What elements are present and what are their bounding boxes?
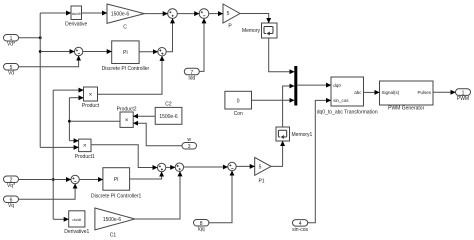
svg-text:Idd: Idd (188, 75, 195, 81)
wire PI1 to B1 bottom (130, 172, 162, 179)
wire Iqq to S4 bottom (209, 171, 232, 223)
gain C 1500e-6 (107, 4, 144, 30)
svg-text:du/dt: du/dt (72, 11, 82, 16)
wire wC to Product1 top (69, 140, 78, 142)
wire Idd up to T2 bottom (199, 18, 204, 71)
node trunk A branch (39, 50, 42, 53)
inport Vq (4, 196, 19, 209)
svg-text:Signal(s): Signal(s) (382, 90, 400, 95)
wire S3 to PI1 (79, 179, 103, 181)
derivative1 block du/dt (64, 211, 89, 235)
svg-text:abc: abc (354, 90, 362, 95)
inport Vd* (4, 35, 19, 48)
wire trunk A to Product1 bottom (40, 146, 78, 148)
svg-text:sin_cos: sin_cos (333, 98, 349, 103)
wire C1 to B2 bottom (135, 171, 180, 219)
Memory1 (276, 127, 313, 141)
svg-text:w: w (187, 137, 191, 143)
inport w (182, 137, 197, 150)
wire Vq to S3 bottom (19, 184, 76, 200)
svg-text:sin-cos: sin-cos (292, 227, 308, 233)
sum B2 (175, 163, 183, 171)
derivative block du/dt (65, 6, 87, 28)
svg-text:Iqq: Iqq (198, 227, 205, 233)
svg-text:Vd: Vd (8, 71, 14, 77)
svg-text:Vq: Vq (8, 203, 14, 209)
wire B1 to B2 (166, 166, 175, 168)
svg-text:Derivative1: Derivative1 (64, 229, 89, 235)
wire w to Product2 bottom (133, 123, 182, 146)
wire Memory bottom to mux in1 (269, 38, 295, 72)
svg-text:Discrete PI Controller: Discrete PI Controller (102, 66, 150, 72)
sum S4 (228, 162, 236, 170)
sum S2 (158, 48, 166, 56)
svg-text:Discrete PI Controller1: Discrete PI Controller1 (91, 193, 142, 199)
wire trunk A vertical (39, 13, 41, 147)
svg-text:Product1: Product1 (75, 154, 95, 160)
wire T2 to P (209, 13, 223, 15)
wire Vq* to S3 (19, 179, 71, 181)
node trunk B / Vq* (52, 178, 55, 181)
wire mux out to dq0 (297, 84, 331, 86)
svg-text:1500e-6: 1500e-6 (111, 12, 130, 18)
sum T2 (199, 9, 209, 19)
wire S1 to PI (83, 51, 112, 53)
wire P to Memory top (240, 14, 269, 24)
Product2 (flipped) (117, 107, 137, 128)
inport Iqq (194, 220, 209, 233)
svg-text:PWM Generator: PWM Generator (388, 106, 424, 112)
svg-text:C1: C1 (110, 233, 117, 238)
wire trunk A to Derivative (40, 12, 71, 14)
svg-text:Memory1: Memory1 (292, 132, 313, 138)
inport Idd (184, 68, 199, 81)
gain P1 (255, 157, 271, 184)
svg-text:C: C (123, 24, 127, 30)
svg-text:Memory: Memory (242, 28, 261, 34)
wire trunk B to Derivative1 (53, 218, 68, 220)
svg-text:C2: C2 (165, 102, 172, 108)
wire Vd to S1 bottom (19, 56, 79, 67)
Product1 (75, 139, 95, 160)
wire sin-cos up to sin_cos input (308, 100, 331, 222)
inport Vd (4, 64, 19, 77)
gain P (223, 4, 240, 30)
svg-text:PI: PI (114, 177, 119, 183)
wire S2 up to T1 bottom (166, 18, 172, 51)
svg-text:Pulses: Pulses (417, 90, 431, 95)
svg-text:Product2: Product2 (117, 107, 137, 113)
wire wC line vertical (68, 98, 70, 141)
svg-text:1500e-6: 1500e-6 (159, 114, 178, 120)
wire Product2 out to wC line (69, 120, 120, 122)
svg-text:du/dt: du/dt (72, 217, 82, 222)
svg-text:Product: Product (82, 103, 100, 109)
Discrete PI Controller (102, 41, 150, 72)
sum S3 (71, 175, 79, 183)
wire abc to PWM Generator (364, 91, 380, 93)
svg-text:Derivative: Derivative (65, 22, 87, 28)
svg-text:×: × (89, 92, 93, 98)
wire P1 to Memory1 bottom (271, 141, 283, 166)
Memory (242, 23, 277, 38)
svg-text:dq0_to_abc Transformation: dq0_to_abc Transformation (317, 110, 378, 116)
node trunk A / Vd* (39, 36, 42, 39)
wire T1 to T2 (177, 13, 199, 15)
wire S4 to P1 (236, 165, 255, 167)
wire PWM Generator to outport (433, 91, 456, 93)
wire Memory1 top to mux in2 (283, 86, 295, 127)
wire wC to Product bottom (69, 97, 83, 99)
svg-text:×: × (83, 144, 87, 150)
dq0_to_abc Transformation (317, 77, 378, 116)
PWM Generator (380, 81, 434, 112)
constant C2 (155, 102, 182, 125)
svg-text:0: 0 (237, 98, 240, 104)
wire trunk B vertical (52, 90, 54, 219)
wire Product1 out to B1 left (91, 145, 157, 168)
svg-text:P1: P1 (258, 179, 264, 185)
sum B1 (157, 163, 165, 171)
sum T1 (168, 9, 178, 19)
node wC junction (68, 120, 71, 123)
svg-text:5: 5 (227, 11, 230, 17)
wire B2 to S4 (184, 166, 228, 168)
svg-text:Con: Con (234, 111, 243, 117)
sum S1 (74, 47, 82, 55)
outport PWM (456, 89, 471, 102)
svg-text:3: 3 (188, 144, 191, 150)
wire trunk B to Product top (53, 89, 83, 91)
svg-text:PWM: PWM (457, 96, 469, 102)
wire Derivative to C (82, 12, 108, 14)
inport Vq* (4, 176, 19, 189)
gain C1 1500e-6 (95, 208, 135, 239)
wire Vd* to trunk A (19, 37, 41, 39)
wire Con to mux in3 (252, 99, 295, 101)
svg-text:Vd*: Vd* (7, 42, 15, 48)
wire Product out to S2 bottom (98, 56, 163, 94)
svg-text:1500e-6: 1500e-6 (103, 217, 122, 223)
svg-text:5: 5 (259, 164, 262, 170)
wire PI to S2 (139, 51, 158, 53)
svg-text:PI: PI (123, 50, 128, 56)
svg-text:×: × (125, 118, 129, 124)
svg-text:Vq*: Vq* (7, 183, 15, 189)
mux (294, 66, 297, 106)
Discrete PI Controller1 (91, 168, 142, 200)
Product (82, 87, 100, 109)
inport sin-cos (292, 220, 308, 233)
constant Con (225, 91, 252, 117)
wire C to T1 (144, 13, 167, 15)
wire trunk A to S1 (40, 51, 74, 53)
svg-text:dq0: dq0 (333, 83, 341, 88)
wire C2 to Product2 (133, 115, 155, 117)
